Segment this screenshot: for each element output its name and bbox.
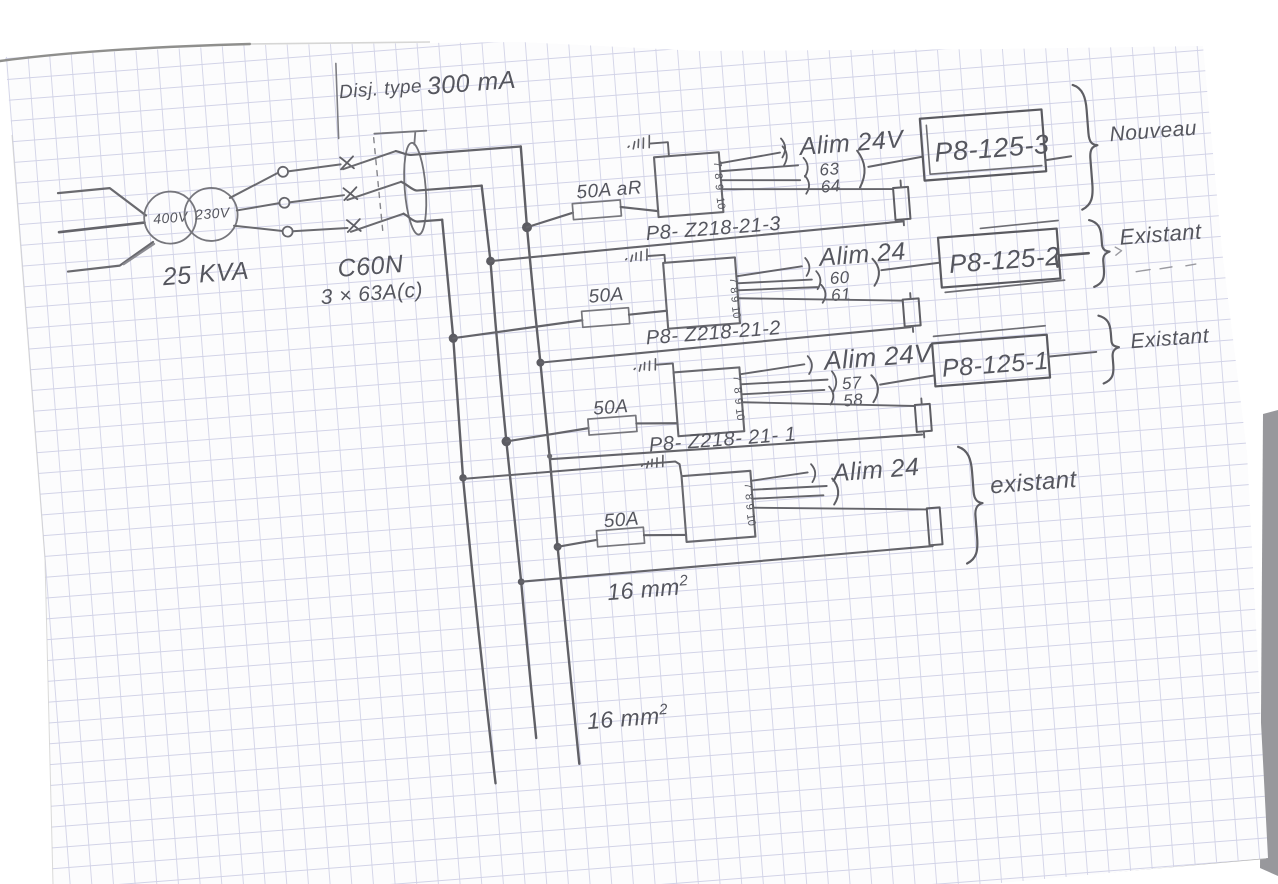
bus V1 vertical <box>521 146 580 765</box>
row2 return wire to V1 <box>540 327 911 363</box>
connector box P8-125-3 <box>920 109 1046 180</box>
junction dot row3 return on V1 <box>547 453 553 459</box>
row1 cable mark pin9 <box>805 176 810 194</box>
junction dot row4 return on V2 <box>518 578 525 585</box>
row1 tail wire from box <box>1045 156 1071 160</box>
row3 wire fuse F3 to block U3 <box>636 420 677 426</box>
brace row2 <box>1089 219 1112 287</box>
paper bottom-right edge shadow <box>990 858 1266 882</box>
resistor R3 end body <box>915 404 932 432</box>
row4 wire phase from V1 to fuse F4 <box>557 540 597 547</box>
brace row3 <box>1098 314 1121 383</box>
breaker Q1 pole 1 contact X <box>340 156 354 169</box>
row2 wire to connector box P8-125-2 <box>881 263 940 271</box>
row2 output wire pin7 <box>736 266 802 276</box>
row1 supply hook wire to block U1 top <box>650 142 669 157</box>
power supply block U3 <box>674 367 745 436</box>
row1 wire phase from V1 to fuse F1 <box>526 213 574 228</box>
connector box P8-125-2 double top line <box>940 220 1064 292</box>
row4 output wire pin9 <box>752 493 823 500</box>
resistor R2 stubs <box>910 293 913 332</box>
svg-text:50A: 50A <box>588 284 625 308</box>
row3 output wire pin7 <box>740 364 805 374</box>
row4 cable mark pin7 <box>811 464 816 482</box>
row3 cable mark pin7 <box>808 356 813 374</box>
row3 wire to connector box P8-125-1 <box>880 375 935 384</box>
svg-text:61: 61 <box>830 285 851 305</box>
wire secondary to terminal 1 <box>228 173 278 198</box>
svg-text:58: 58 <box>843 390 864 410</box>
row2 cable mark pin9 <box>821 285 826 303</box>
svg-text:230V: 230V <box>193 204 231 223</box>
terminal node 2 <box>279 197 290 208</box>
wire bottom pole to bus V3 <box>404 211 443 223</box>
row4 output wire pin8 <box>752 484 827 492</box>
junction dot row1 phase on V1 <box>522 222 533 233</box>
breaker Q1 pole 2 contact X <box>343 187 357 200</box>
power supply block U2 <box>663 257 740 328</box>
paper top-left curled edge shadow <box>0 44 250 61</box>
row1 output wire pin7 <box>719 153 780 164</box>
row2 wire fuse F2 to block U2 <box>629 311 667 315</box>
row3 cable mark pin9 <box>829 386 834 404</box>
row3 supply hook wire to block U3 top <box>657 363 674 374</box>
row3 output wire pin9 <box>741 388 824 396</box>
RCD toroid sensor oval <box>401 142 429 235</box>
svg-text:10: 10 <box>714 196 728 210</box>
row2 output wire pin10 to resistor R2 <box>738 286 903 314</box>
wire input L3 double stroke <box>122 244 155 264</box>
fuse F4 body <box>596 527 644 547</box>
fuse F3 body <box>588 415 637 435</box>
row1 cable mark pin8 <box>803 158 808 177</box>
junction dot row4 phase on V1 <box>553 543 562 552</box>
smudge marks under Existant <box>1115 241 1196 273</box>
row3 cable bundle mark <box>871 375 879 402</box>
row2 supply ticks marks <box>625 249 648 262</box>
row3 output wire pin8 <box>741 378 828 387</box>
bus V3 vertical <box>442 219 495 784</box>
row1 return wire to V2 <box>490 221 904 261</box>
row2 output wire pin8 <box>737 278 812 286</box>
junction dot row1 return on V2 <box>486 256 495 265</box>
power supply block U4 <box>682 471 756 542</box>
row4 output wire pin7 <box>751 472 808 480</box>
row3 wire phase from V2 to fuse F3 <box>506 428 589 441</box>
bus V2 vertical <box>482 185 537 739</box>
row4 supply ticks marks <box>641 455 664 468</box>
wire terminal 3 to breaker pole 3 <box>293 227 348 232</box>
svg-text:50A: 50A <box>592 396 629 420</box>
row1 cable mark pin7 <box>783 146 788 165</box>
connector box P8-125-2 <box>938 229 1060 288</box>
connector box P8-125-1 <box>932 335 1050 387</box>
breaker Q1 trip linkage dashed <box>374 138 384 236</box>
breaker Q1 pole 3 blade <box>350 214 405 232</box>
svg-text:10: 10 <box>733 407 747 421</box>
row1 cable bundle mark <box>857 150 866 187</box>
svg-text:64: 64 <box>820 176 841 196</box>
brace row1 <box>1073 83 1103 209</box>
fuse F1 body <box>572 200 621 220</box>
row4 cable bundle mark <box>832 478 839 504</box>
wire secondary to terminal 3 <box>234 222 283 235</box>
row1 cable mark before Alim <box>781 138 786 157</box>
row1 wire to connector box P8-125-3 <box>868 157 923 167</box>
wire secondary to terminal 2 <box>237 203 280 210</box>
connector box P8-125-1 double top line <box>933 326 1045 337</box>
breaker Q1 trip bar <box>374 130 426 135</box>
resistor R3 stubs <box>921 398 924 437</box>
svg-text:10: 10 <box>729 305 743 319</box>
row4 hook wire from V3 to block U4 <box>463 461 682 493</box>
resistor R2 end body <box>903 298 921 326</box>
row2 supply hook wire to block U2 top <box>649 255 666 264</box>
wire phase input L2 <box>59 223 145 233</box>
wire mid pole to bus V2 <box>401 176 482 192</box>
scanner background grey strip right side <box>1260 410 1278 876</box>
svg-text:C60N: C60N <box>337 250 405 283</box>
junction dot row3 phase on V2 <box>501 436 511 446</box>
wire terminal 2 to breaker pole 2 <box>289 195 344 202</box>
row2 cable mark pin8 <box>816 271 821 289</box>
row2 tail wire from box <box>1056 253 1090 266</box>
row1 output wire pin8 <box>720 165 798 171</box>
wire terminal 1 to breaker pole 1 <box>288 164 341 171</box>
wire phase input L1 <box>58 186 146 223</box>
power supply block U1 <box>654 152 723 217</box>
wire top pole to bus V1 <box>396 141 521 156</box>
row3 supply ticks marks <box>634 359 657 372</box>
row1 wire fuse F1 to block U1 <box>621 204 658 214</box>
label leader line Disj <box>333 63 342 138</box>
svg-text:50A: 50A <box>603 509 640 533</box>
row2 wire phase from V3 to fuse F2 <box>453 320 583 338</box>
connector box P8-125-3 inner double border <box>926 117 1041 174</box>
row4 wire fuse F4 to block U4 <box>644 532 686 538</box>
junction dot row2 return on V1 <box>536 358 545 367</box>
breaker Q1 pole 1 blade <box>342 151 397 169</box>
resistor R4 end body <box>927 507 943 545</box>
row2 cable mark pin7 <box>805 258 810 276</box>
breaker Q1 pole 2 blade <box>346 182 402 200</box>
wire phase input L3 <box>66 242 155 272</box>
junction dot row4 hook on V3 <box>459 474 467 482</box>
transformer T1 secondary winding circle 230V <box>183 186 240 243</box>
terminal node 3 <box>282 226 293 237</box>
row1 supply ticks marks <box>627 136 650 150</box>
resistor R1 stubs <box>900 180 903 225</box>
breaker Q1 pole 3 contact X <box>347 219 361 232</box>
row2 output wire pin9 <box>737 284 817 293</box>
brace row4 <box>958 445 987 563</box>
resistor R1 end body <box>893 187 910 220</box>
row1 output wire pin10 to resistor R1 <box>722 176 893 202</box>
row1 output wire pin9 <box>721 174 800 186</box>
terminal node 1 <box>278 166 289 177</box>
fuse F2 body <box>582 308 630 328</box>
junction dot row2 phase on V3 <box>448 333 458 343</box>
transformer T1 primary winding circle 400V <box>142 190 198 246</box>
row3 return wire to V1 <box>550 431 922 464</box>
row3 cable mark pin8 <box>832 371 837 391</box>
paper left edge faint line <box>12 135 53 884</box>
row3 output wire pin10 to resistor R3 <box>742 389 915 419</box>
row3 tail wire from box <box>1048 352 1096 357</box>
svg-text:10: 10 <box>744 513 758 527</box>
row2 cable bundle mark <box>872 258 880 285</box>
row4 return wire to V2 <box>521 546 933 582</box>
row4 output wire pin10 to resistor R4 <box>753 494 927 522</box>
breaker Q1 trip bar tick to toroid <box>413 132 416 145</box>
